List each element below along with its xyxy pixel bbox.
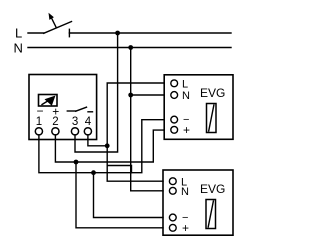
junction dot plus line bbox=[74, 160, 79, 165]
wire N drop bbox=[131, 48, 163, 191]
junction dot L rail bbox=[115, 31, 120, 36]
svg-text:N: N bbox=[14, 41, 23, 56]
svg-text:2: 2 bbox=[52, 116, 58, 128]
dimmer icon in U1 bbox=[39, 95, 58, 107]
svg-text:EVG: EVG bbox=[200, 86, 225, 100]
EVG2 terminal N circle bbox=[169, 187, 176, 194]
EVG2 box bbox=[163, 170, 233, 235]
EVG1 terminal plus circle bbox=[171, 126, 178, 133]
svg-text:+: + bbox=[183, 123, 190, 137]
wire jog from riser bbox=[107, 166, 131, 173]
svg-text:L: L bbox=[182, 79, 188, 91]
svg-text:EVG: EVG bbox=[200, 182, 225, 196]
switch S1 blade bbox=[44, 22, 72, 34]
svg-text:L: L bbox=[15, 26, 22, 41]
wire terminal 4 to L riser bbox=[88, 135, 107, 146]
wire N rail bbox=[28, 47, 231, 49]
svg-text:N: N bbox=[181, 186, 189, 198]
EVG2 terminal L circle bbox=[169, 178, 176, 185]
svg-text:+: + bbox=[182, 221, 189, 235]
EVG2 terminal minus circle bbox=[169, 214, 176, 221]
relay contact icon in U1 bbox=[67, 107, 92, 112]
switch S1 right contact tick bbox=[68, 29, 70, 36]
EVG2 terminal plus circle bbox=[169, 224, 176, 231]
junction dot minus line bbox=[91, 170, 96, 175]
junction dot N to EVG1 bbox=[128, 93, 133, 98]
wire L rail bbox=[69, 32, 231, 34]
EVG1 terminal minus circle bbox=[171, 116, 178, 123]
wire EVG1 N stub bbox=[131, 94, 165, 96]
wire terminal 2 plus line bbox=[55, 130, 164, 162]
wire L rail left lead bbox=[28, 32, 44, 34]
EVG1 terminal N circle bbox=[171, 92, 178, 99]
EVG2 lamp symbol bbox=[206, 200, 216, 229]
terminal 1 circle bbox=[35, 128, 42, 135]
terminal 2 circle bbox=[52, 128, 59, 135]
wire minus branch to EVG2 bbox=[94, 173, 164, 218]
wire terminal 1 minus line bbox=[39, 120, 164, 173]
svg-text:3: 3 bbox=[72, 116, 78, 128]
junction dot N rail bbox=[128, 45, 133, 50]
switch S1 actuator arrow bbox=[49, 13, 57, 28]
control unit U1 box bbox=[29, 75, 97, 140]
svg-text:4: 4 bbox=[85, 116, 92, 128]
wire plus branch to EVG2 bbox=[76, 162, 163, 228]
EVG1 box bbox=[164, 75, 233, 140]
EVG1 terminal L circle bbox=[171, 80, 178, 87]
terminal 3 circle bbox=[71, 128, 78, 135]
EVG1 lamp symbol bbox=[207, 104, 217, 133]
svg-text:N: N bbox=[182, 90, 190, 102]
wire switched L riser bbox=[107, 83, 164, 181]
junction dot switched L bbox=[105, 143, 110, 148]
terminal 4 circle bbox=[84, 128, 91, 135]
wire L drop to terminal 3 bbox=[75, 33, 118, 152]
svg-text:1: 1 bbox=[36, 116, 42, 128]
